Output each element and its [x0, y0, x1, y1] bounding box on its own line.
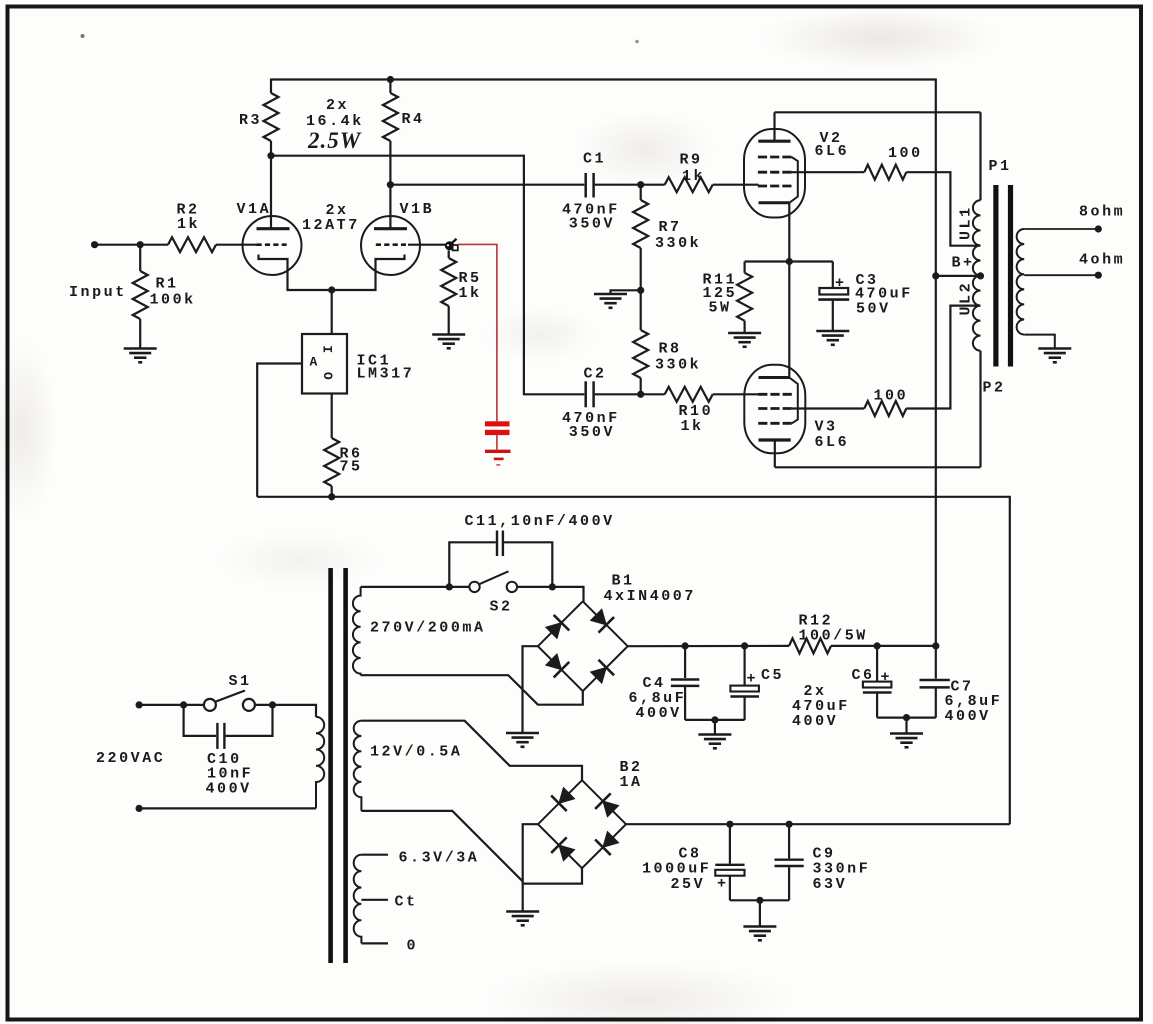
svg-text:1000uF: 1000uF: [642, 861, 711, 878]
wire B1 left corner to ground: [523, 646, 538, 733]
svg-text:R3: R3: [239, 112, 262, 129]
svg-text:R1: R1: [156, 276, 179, 293]
node C10 left: [180, 701, 187, 708]
svg-text:P2: P2: [983, 380, 1006, 397]
wire C4 C5 common to ground: [685, 719, 745, 721]
wire top rail B+ feed: [271, 80, 936, 276]
resistor R9: [641, 152, 759, 193]
svg-text:5W: 5W: [709, 300, 732, 317]
wire V3 plate to P2: [775, 466, 981, 468]
resistor 100 screen V3: [792, 306, 981, 416]
node primary center tap: [977, 272, 984, 279]
node R4 bottom junction: [387, 181, 394, 188]
wire heater DC rail: [257, 497, 1010, 824]
svg-text:270V/200mA: 270V/200mA: [370, 620, 486, 637]
op-amp regulator IC1 LM317: [302, 334, 414, 394]
svg-text:V1B: V1B: [400, 201, 435, 218]
wire 6.3V tap: [361, 854, 388, 856]
ground C6 C7: [905, 718, 907, 734]
rail B2 output: [626, 823, 1010, 825]
resistor R5: [441, 251, 481, 335]
wire C8 C9 common: [730, 899, 789, 901]
node C9 tap: [786, 821, 793, 828]
resistor R12: [789, 613, 936, 654]
svg-text:R8: R8: [659, 341, 682, 358]
ground C4 C5: [714, 720, 716, 735]
stray mark top middle: [635, 40, 639, 44]
capacitor C2: [562, 366, 641, 441]
svg-text:R7: R7: [659, 219, 682, 236]
svg-text:220VAC: 220VAC: [96, 750, 165, 767]
svg-text:+: +: [881, 669, 893, 686]
ground C3: [816, 331, 849, 345]
wire S2 right to bridge top: [517, 587, 583, 601]
resistor 100 screen V2: [792, 145, 981, 246]
svg-text:2.5W: 2.5W: [307, 128, 362, 153]
capacitor C10: [184, 705, 273, 798]
svg-text:350V: 350V: [569, 424, 615, 441]
node cathode junction: [328, 286, 335, 293]
wire 12V bottom to B2: [361, 811, 522, 882]
ground R7 R8: [594, 294, 627, 308]
svg-text:Ct: Ct: [395, 894, 418, 911]
svg-text:400V: 400V: [636, 705, 682, 722]
switch S2: [469, 571, 517, 615]
svg-text:1k: 1k: [681, 418, 704, 435]
winding 270V: [353, 587, 486, 675]
svg-text:25V: 25V: [671, 876, 706, 893]
node C1 out junction: [637, 181, 644, 188]
wire 270V to bridge via S2: [361, 586, 469, 588]
ground speaker: [1038, 349, 1071, 363]
wire red probe lead: [458, 244, 497, 421]
svg-text:+: +: [747, 671, 759, 688]
svg-text:63V: 63V: [813, 876, 848, 893]
wire cathode node: [745, 260, 833, 262]
wire B+ down to R12 rail: [935, 276, 937, 646]
resistor R11: [703, 262, 753, 334]
node C8 tap: [726, 821, 733, 828]
transformer secondary winding: [1017, 229, 1025, 335]
svg-text:330k: 330k: [655, 235, 701, 252]
svg-text:6L6: 6L6: [815, 143, 850, 160]
svg-text:1A: 1A: [620, 774, 643, 791]
svg-text:C2: C2: [584, 366, 607, 383]
node R3 bottom junction: [267, 152, 274, 159]
wire C6 C7 common to ground: [877, 716, 936, 718]
svg-text:100k: 100k: [150, 292, 196, 309]
svg-text:8ohm: 8ohm: [1079, 204, 1125, 221]
node C2 out junction: [637, 391, 644, 398]
resistor R3: [239, 93, 279, 156]
wire V2 plate to P1: [775, 111, 981, 113]
node C8 C9 ground: [756, 897, 763, 904]
resistor R10: [641, 387, 759, 435]
svg-text:C11,10nF/400V: C11,10nF/400V: [465, 513, 615, 530]
bridge rectifier B2: [538, 759, 643, 868]
capacitor red highlighted: [485, 421, 510, 449]
resistor R6: [324, 394, 362, 497]
wire V1B anode to C1: [390, 184, 584, 186]
input terminal: [91, 241, 98, 248]
svg-text:C6: C6: [852, 667, 875, 684]
svg-text:A: A: [310, 355, 320, 370]
wire common cathode line: [788, 203, 790, 378]
wire Ct tap: [361, 899, 388, 901]
svg-text:6.3V/3A: 6.3V/3A: [399, 850, 480, 867]
capacitor C8 electrolytic: [642, 824, 745, 900]
transformer P1 primary winding: [958, 112, 1012, 467]
tube V1A: [237, 156, 332, 290]
node cathode R11 C3: [786, 258, 793, 265]
terminal 4ohm: [1095, 272, 1102, 279]
wire 12V top to B2: [361, 721, 582, 781]
terminal mains bottom: [136, 805, 143, 812]
tube V1B: [332, 185, 446, 290]
svg-text:R4: R4: [402, 111, 425, 128]
ground B1: [506, 733, 539, 747]
tube V2 6L6: [744, 112, 849, 217]
svg-text:400V: 400V: [945, 708, 991, 725]
svg-text:50V: 50V: [856, 301, 891, 318]
node input junction: [137, 241, 144, 248]
wire B2 bottom corner link: [523, 868, 582, 883]
stray mark top left: [81, 34, 85, 38]
svg-text:100/5W: 100/5W: [799, 628, 868, 645]
wire 0 tap: [361, 942, 388, 944]
node B+ junction: [932, 272, 939, 279]
connector probe glyph at V1B grid: [445, 239, 458, 251]
wire mains top: [139, 704, 204, 706]
svg-text:S1: S1: [229, 673, 252, 690]
wire 4ohm tap: [1024, 274, 1098, 276]
terminal mains top: [136, 701, 143, 708]
svg-text:B+: B+: [952, 255, 975, 272]
wire input: [95, 244, 141, 246]
resistor R7: [633, 185, 701, 291]
node C6 C7 ground: [903, 714, 910, 721]
resistor R4: [383, 80, 425, 185]
label 2x 12AT7: [302, 202, 360, 234]
node S2 right: [549, 583, 556, 590]
ground B2: [506, 912, 539, 926]
svg-text:I: I: [319, 345, 334, 355]
node R4 top: [387, 76, 394, 83]
capacitor C6 electrolytic: [852, 646, 893, 718]
wire S1 to primary: [255, 705, 316, 717]
svg-text:V3: V3: [815, 419, 838, 436]
svg-text:4xIN4007: 4xIN4007: [604, 588, 696, 605]
svg-text:P1: P1: [989, 158, 1012, 175]
svg-text:1k: 1k: [459, 285, 482, 302]
svg-text:C1: C1: [583, 151, 606, 168]
svg-text:C5: C5: [761, 667, 784, 684]
resistor R1: [133, 245, 196, 349]
svg-text:O: O: [320, 372, 335, 382]
node R6 bottom on rail: [328, 493, 335, 500]
winding 6.3V: [354, 855, 362, 944]
svg-text:UL1: UL1: [958, 205, 975, 240]
svg-text:12AT7: 12AT7: [302, 217, 360, 234]
node S2 left: [446, 583, 453, 590]
capacitor C11: [449, 531, 552, 587]
resistor R2: [140, 202, 257, 253]
svg-text:1k: 1k: [177, 216, 200, 233]
ground red: [485, 451, 511, 465]
transformer core bars main: [331, 568, 346, 963]
svg-text:LM317: LM317: [357, 366, 415, 383]
svg-text:R9: R9: [680, 152, 703, 169]
svg-text:2x: 2x: [326, 97, 349, 114]
wire cathodes to IC1: [331, 290, 333, 334]
node C4 C5 ground: [711, 716, 718, 723]
wire 8ohm tap: [1024, 228, 1098, 230]
node C6 tap: [874, 642, 881, 649]
capacitor C7: [920, 646, 1003, 725]
node C4 tap: [682, 642, 689, 649]
node C10 right: [269, 701, 276, 708]
node C5 tap: [741, 642, 748, 649]
wire B+ to primary center tap: [936, 275, 981, 277]
svg-text:6L6: 6L6: [815, 434, 850, 451]
tube V3 6L6: [744, 365, 849, 468]
capacitor C3 electrolytic: [818, 262, 912, 332]
capacitor C9: [775, 824, 871, 900]
transformer core bars: [996, 185, 1011, 367]
svg-text:350V: 350V: [569, 216, 615, 233]
ground C8 C9: [759, 900, 761, 926]
svg-text:4ohm: 4ohm: [1079, 252, 1125, 269]
ground R11: [728, 333, 761, 347]
wire 270V bottom to B1 bottom corner: [361, 675, 583, 705]
ground R1: [124, 349, 157, 363]
svg-text:1k: 1k: [682, 168, 705, 185]
bridge rectifier B1: [538, 573, 696, 692]
label 2x 470uF 400V: [792, 683, 850, 730]
svg-text:0: 0: [407, 938, 419, 955]
svg-text:330k: 330k: [655, 357, 701, 374]
svg-text:400V: 400V: [792, 713, 838, 730]
wire to ground stub: [611, 290, 641, 294]
wire V1A anode to C2 (crossover): [271, 156, 584, 395]
svg-text:100: 100: [888, 145, 923, 162]
wire B2 left corner to ground: [523, 824, 538, 911]
svg-text:Input: Input: [69, 284, 127, 301]
svg-text:400V: 400V: [206, 781, 252, 798]
svg-text:12V/0.5A: 12V/0.5A: [370, 744, 462, 761]
winding mains primary: [316, 717, 324, 809]
terminal 8ohm: [1095, 225, 1102, 232]
capacitor C5 electrolytic: [730, 646, 784, 720]
node R7 R8 ground junction: [637, 287, 644, 294]
capacitor C1: [562, 151, 641, 233]
svg-text:V1A: V1A: [237, 201, 272, 218]
svg-text:S2: S2: [490, 599, 513, 616]
svg-text:100: 100: [874, 388, 909, 405]
node C7 B+ tap: [932, 642, 939, 649]
wire secondary bottom to ground: [1024, 335, 1055, 349]
svg-text:75: 75: [340, 459, 363, 476]
svg-text:B1: B1: [612, 573, 635, 590]
rail B1 plus to R12: [628, 645, 789, 647]
ground R5: [432, 335, 465, 349]
svg-text:330nF: 330nF: [813, 861, 871, 878]
switch S1: [204, 673, 255, 711]
resistor R8: [633, 290, 701, 394]
capacitor C4: [629, 646, 700, 722]
svg-text:+: +: [717, 876, 729, 893]
wire mains bottom: [139, 807, 316, 809]
svg-text:UL2: UL2: [958, 281, 975, 316]
wire IC1 adjust to bottom rail: [257, 364, 302, 497]
winding 12V: [354, 721, 463, 811]
label 2x 16.4k: [306, 97, 364, 130]
